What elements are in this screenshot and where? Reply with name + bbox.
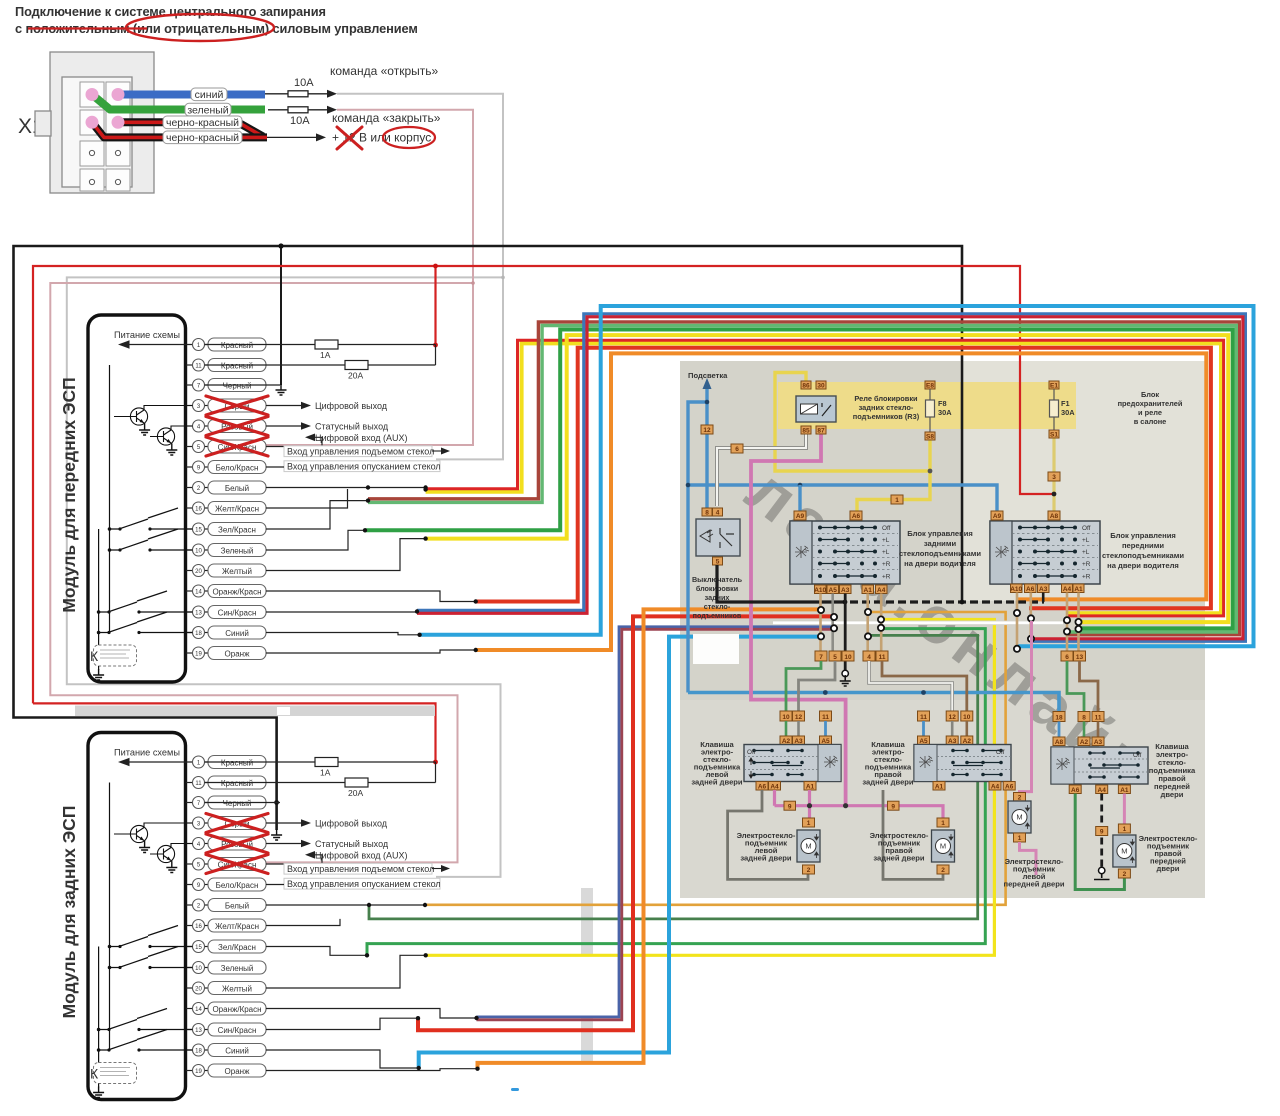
wire close-line to fuse <box>268 109 288 111</box>
wire blue lighting feed <box>705 388 708 508</box>
arrow команда открыть <box>308 93 328 95</box>
rear window lock switch box <box>696 519 740 556</box>
wire label зеленый <box>185 103 231 116</box>
svg-text:A6: A6 <box>758 784 767 791</box>
rear A3 black ground wire <box>844 594 847 671</box>
wire blue branch to lower bus <box>688 402 707 693</box>
wire orange Оранж (lower) <box>478 609 824 1068</box>
svg-text:30A: 30A <box>938 408 952 417</box>
wire зеленый <box>92 95 265 110</box>
wire label синий <box>163 88 242 144</box>
svg-text:E8: E8 <box>926 383 934 390</box>
gray artifact bar above lower module <box>75 706 435 717</box>
svg-text:предохранителей: предохранителей <box>1118 399 1183 408</box>
svg-text:Off: Off <box>996 749 1005 756</box>
pin box 11 <box>876 651 888 661</box>
front A6 stub + terminals + pink down <box>1030 593 1033 641</box>
svg-text:задней двери: задней двери <box>691 778 743 787</box>
thin black jog wires upper module <box>266 488 476 654</box>
svg-text:7: 7 <box>819 654 823 661</box>
relay pin 86 <box>801 381 811 389</box>
svg-text:F1: F1 <box>1061 399 1070 408</box>
connector empty pin holes <box>89 150 120 184</box>
svg-text:A4: A4 <box>1098 787 1107 794</box>
svg-text:задних стекло-: задних стекло- <box>859 403 914 412</box>
scanned panel background <box>680 361 1205 898</box>
svg-text:2: 2 <box>807 867 811 874</box>
red ellipse корпус <box>383 127 435 148</box>
wire gray command open: right, down, into upper module <box>337 94 503 460</box>
wire rose loop to lower module AUX <box>50 283 473 862</box>
wire gold Белый (lower) <box>425 612 1006 905</box>
pin box 3 <box>1048 472 1060 481</box>
front block pin A9 <box>991 511 1003 520</box>
wire cyan Синий (upper) <box>420 306 1254 646</box>
svg-text:A3: A3 <box>1039 586 1048 593</box>
wire blue Оранж/Красн pair (lower) <box>477 627 836 1017</box>
connector X1 body <box>35 52 154 193</box>
svg-text:13: 13 <box>1076 654 1084 661</box>
pin box 6 <box>731 444 743 453</box>
wire blue Синий (lower) <box>419 637 824 1068</box>
svg-text:команда «закрыть»: команда «закрыть» <box>332 111 441 125</box>
front driver control block <box>990 521 1100 584</box>
svg-text:30A: 30A <box>1061 408 1075 417</box>
svg-text:12: 12 <box>949 714 957 721</box>
pink bus motors row <box>775 790 944 818</box>
svg-text:и реле: и реле <box>1138 408 1162 417</box>
svg-text:Блок управления: Блок управления <box>907 529 973 538</box>
junction red/fuse lower <box>433 760 438 765</box>
relay pin 87 <box>816 426 826 434</box>
pin box 5 <box>829 651 841 661</box>
motor 3 <box>1014 793 1026 802</box>
svg-text:стеклоподъемниками: стеклоподъемниками <box>1102 551 1184 560</box>
stubs to A2 A3 A5 <box>785 721 788 736</box>
svg-text:A1: A1 <box>935 784 944 791</box>
pin box 10 blk1 <box>780 711 792 721</box>
line to +12V <box>267 136 316 138</box>
svg-text:A3: A3 <box>841 587 850 594</box>
svg-text:8: 8 <box>1082 714 1086 721</box>
relay text <box>853 394 920 421</box>
red strikethrough on "положительным" <box>28 27 147 29</box>
svg-text:85: 85 <box>802 428 810 435</box>
wire maroon Оранж/Красн pair (lower) <box>477 629 836 1020</box>
key block 3: right front door <box>1053 712 1065 722</box>
svg-text:18: 18 <box>1055 714 1063 721</box>
wire label черно-красный 1 <box>163 116 242 129</box>
front A3 stub <box>1042 593 1045 603</box>
svg-text:6: 6 <box>735 446 739 453</box>
black frame wire inside panel <box>961 361 964 602</box>
svg-text:стеклоподъемниками: стеклоподъемниками <box>899 549 981 558</box>
wire white box4 to box12 blk2 <box>869 661 952 711</box>
white artifact box <box>693 634 739 664</box>
svg-text:A3: A3 <box>1094 739 1103 746</box>
red power wire top <box>33 266 1054 703</box>
svg-text:передней двери: передней двери <box>1004 880 1065 889</box>
svg-text:5: 5 <box>716 559 720 566</box>
pin box 7 <box>815 651 827 661</box>
svg-text:3: 3 <box>1052 474 1056 481</box>
wire blue bus upper <box>688 485 997 511</box>
svg-text:10A: 10A <box>290 115 310 127</box>
wire rose command close: right, down, into upper module AUX <box>265 110 473 445</box>
svg-text:Модуль для передних ЭСП: Модуль для передних ЭСП <box>59 377 79 612</box>
svg-text:черно-красный: черно-красный <box>166 117 239 129</box>
red ellipse around "(или отрицательным)" <box>126 14 274 41</box>
svg-text:10: 10 <box>844 654 852 661</box>
svg-text:передними: передними <box>1122 541 1164 550</box>
svg-text:Off: Off <box>747 749 756 756</box>
svg-text:2: 2 <box>941 867 945 874</box>
rear driver control block <box>790 521 900 584</box>
pin box 11 blk1 <box>820 711 832 721</box>
svg-text:A8: A8 <box>1055 739 1064 746</box>
wire yellow Желт/Красн (upper) <box>426 343 1221 613</box>
yellow highlight band <box>778 382 1076 429</box>
wire red Син/Красн (lower) <box>418 616 835 1030</box>
svg-text:9: 9 <box>1100 829 1104 836</box>
svg-text:11: 11 <box>1095 714 1102 721</box>
rear block window icon <box>795 546 809 558</box>
svg-text:11: 11 <box>879 654 886 661</box>
pin box 10 <box>842 651 854 661</box>
svg-text:1: 1 <box>807 820 811 827</box>
wire pink block3 A1 to motor4 <box>1123 794 1126 825</box>
svg-text:S8: S8 <box>926 434 934 441</box>
svg-text:черно-красный: черно-красный <box>166 132 239 144</box>
wire черно-красный 2 <box>92 122 267 137</box>
svg-text:1: 1 <box>895 497 899 504</box>
svg-text:A1: A1 <box>1120 787 1129 794</box>
wire green box6 to box8 blk3 <box>1067 661 1084 712</box>
thin black jog wires lower module <box>266 905 478 1071</box>
wire label черно-красный 2 <box>163 131 242 144</box>
svg-text:4: 4 <box>716 510 720 517</box>
svg-text:A6: A6 <box>1026 586 1035 593</box>
rear block bottom pins A10 A5 A3 A1 A4 <box>815 585 827 594</box>
svg-text:на двери водителя: на двери водителя <box>904 559 976 568</box>
svg-text:задними: задними <box>924 539 957 548</box>
fusebox text <box>1118 390 1183 426</box>
front block text <box>1102 531 1184 570</box>
pin A3 blk1 <box>793 736 805 745</box>
fuse F8 30A <box>925 381 935 389</box>
switch text <box>692 575 743 620</box>
svg-text:A4: A4 <box>1063 586 1072 593</box>
wire gray motor2 loop <box>883 790 943 879</box>
wire green Зел/Красн (upper) <box>368 326 1236 633</box>
svg-text:Подсветка: Подсветка <box>688 371 728 380</box>
wire brown box11 to box10 blk2 <box>882 661 967 711</box>
svg-text:подъемников: подъемников <box>693 611 742 620</box>
svg-text:1: 1 <box>1123 826 1127 833</box>
svg-text:10: 10 <box>782 714 790 721</box>
svg-text:A10: A10 <box>814 587 826 594</box>
svg-text:A4: A4 <box>877 587 886 594</box>
black frame wire <box>14 246 963 830</box>
svg-text:1: 1 <box>1018 835 1022 842</box>
motor 4 <box>1118 824 1130 833</box>
front A1 stub + terminals <box>1077 593 1080 652</box>
red power wire inside panel <box>1020 361 1054 494</box>
svg-text:A6: A6 <box>1005 784 1014 791</box>
svg-text:S1: S1 <box>1050 432 1058 439</box>
svg-text:F8: F8 <box>938 399 947 408</box>
red X over 12 <box>337 127 362 149</box>
pin box 9 right <box>888 801 900 810</box>
key block 2: right rear door <box>918 711 930 721</box>
rear block text <box>899 529 981 568</box>
svg-text:9: 9 <box>891 803 895 810</box>
svg-text:12: 12 <box>795 714 803 721</box>
front block window icon <box>995 546 1009 558</box>
pin box 9 left <box>784 801 796 810</box>
svg-text:11: 11 <box>822 714 829 721</box>
wire gray loop to lower module <box>67 277 503 877</box>
pin box 12 <box>701 425 713 434</box>
svg-text:Блок управления: Блок управления <box>1110 531 1176 540</box>
svg-text:Реле блокировки: Реле блокировки <box>854 394 918 403</box>
ground at Черный row (lower) <box>271 829 282 840</box>
svg-text:A2: A2 <box>1080 739 1089 746</box>
fuse 10A #1 <box>288 91 308 97</box>
wire yellow Желтый (lower) <box>426 620 995 956</box>
svg-text:12: 12 <box>703 427 711 434</box>
wire white double from relay 85 <box>717 434 806 506</box>
wire green block3 to motor4 <box>1075 794 1124 890</box>
svg-text:A9: A9 <box>796 513 805 520</box>
wire синий <box>118 91 265 99</box>
svg-text:A1: A1 <box>806 784 815 791</box>
fuse F1 30A <box>1049 381 1059 389</box>
motor 1 <box>803 818 815 827</box>
svg-text:команда «открыть»: команда «открыть» <box>330 64 438 78</box>
svg-text:на двери водителя: на двери водителя <box>1107 561 1179 570</box>
junction lower black frame / Черный row <box>274 800 279 805</box>
pin box 12 blk1 <box>793 711 805 721</box>
title text <box>15 4 418 36</box>
relay pin 85 <box>801 426 811 434</box>
relay pin 30 <box>816 381 826 389</box>
rear block pin A9 <box>794 511 806 520</box>
ground at Черный row (upper) <box>276 384 287 395</box>
pin box 4 <box>863 651 875 661</box>
svg-text:задней двери: задней двери <box>873 854 925 863</box>
wire blue stub to A9 rear <box>798 485 801 511</box>
rear A1 stub + terminals <box>866 594 869 652</box>
wire gray motor1 loop <box>728 790 808 879</box>
wire green box7 to box10 blk1 <box>786 661 821 711</box>
wire red Син/Красн (upper) <box>417 317 1243 639</box>
front A10 stub + terminals <box>1016 593 1019 650</box>
pin box 6 <box>1061 651 1073 661</box>
motor 2 <box>937 818 949 827</box>
svg-text:в салоне: в салоне <box>1134 417 1167 426</box>
fuse 10A #2 <box>288 107 308 113</box>
junction red/fuse upper <box>433 343 438 348</box>
svg-text:10A: 10A <box>294 77 314 89</box>
wire gray box5 to box12 blk1 <box>799 661 836 711</box>
svg-text:30: 30 <box>817 383 825 390</box>
switch pin 8 <box>702 508 712 516</box>
wire black ground bus <box>717 565 838 602</box>
wire yellow Желтый (upper) <box>426 335 1229 622</box>
pin box 1 <box>891 495 903 504</box>
svg-text:9: 9 <box>788 803 792 810</box>
svg-text:A6: A6 <box>852 513 861 520</box>
svg-text:E1: E1 <box>1050 383 1058 390</box>
svg-text:A5: A5 <box>829 587 838 594</box>
blue dash artifact <box>511 1088 519 1091</box>
wire darkgreen Желт/Красн (lower) <box>369 635 978 919</box>
wire yellow relay loop <box>775 373 930 512</box>
wire frame drop to upper module ground <box>280 246 282 385</box>
front block pin A8 <box>1048 511 1060 520</box>
pin box 13 <box>1074 651 1086 661</box>
svg-text:синий: синий <box>195 89 224 101</box>
wire white long (rear to front block) <box>773 620 1063 625</box>
pin A2 blk1 <box>780 736 792 745</box>
svg-text:11: 11 <box>920 714 927 721</box>
red power wire lower loop <box>33 703 436 762</box>
wire red Оранж/Красн (upper) <box>476 348 1211 609</box>
wire red Желт/Красн (upper) <box>426 340 1224 616</box>
svg-text:подъемников (R3): подъемников (R3) <box>853 412 920 421</box>
front A4 stub + terminals <box>1066 593 1069 652</box>
wire green Зеленый (upper) <box>365 330 1233 629</box>
rear A4 stub + terminals <box>880 594 883 652</box>
svg-text:87: 87 <box>817 428 825 435</box>
key block 1 body <box>744 745 841 782</box>
svg-text:A4: A4 <box>770 784 779 791</box>
wire черно-красный 1 <box>118 122 263 136</box>
relay R3 <box>796 396 836 422</box>
svg-text:A8: A8 <box>1050 513 1059 520</box>
wire pale yellow F1 to A8 <box>1052 438 1055 511</box>
svg-text:A1: A1 <box>1074 586 1083 593</box>
rear A5 stub + terminals <box>831 594 834 652</box>
svg-text:8: 8 <box>705 510 709 517</box>
wire open-line to fuse <box>265 93 288 95</box>
svg-text:Модуль для задних ЭСП: Модуль для задних ЭСП <box>59 806 79 1019</box>
svg-text:5: 5 <box>833 654 837 661</box>
svg-text:A6: A6 <box>1071 787 1080 794</box>
svg-text:A4: A4 <box>991 784 1000 791</box>
svg-text:двери: двери <box>1157 864 1180 873</box>
svg-text:A10: A10 <box>1010 586 1022 593</box>
svg-text:Off: Off <box>1133 752 1142 759</box>
gray artifact strips lower center <box>581 888 593 956</box>
svg-text:10: 10 <box>963 714 971 721</box>
svg-text:86: 86 <box>802 383 810 390</box>
arrow команда закрыть <box>308 109 328 111</box>
wire orange Оранж (upper) <box>476 353 1207 650</box>
switch pin 4 <box>713 508 723 516</box>
svg-text:двери: двери <box>1161 790 1184 799</box>
pin A5 blk1 <box>820 736 832 745</box>
wire maroon Зел/Красн (upper) <box>368 322 1239 635</box>
connector pins (pink) <box>86 88 125 129</box>
svg-text:2: 2 <box>1123 871 1127 878</box>
blk1 text <box>691 740 743 787</box>
svg-text:задней двери: задней двери <box>862 778 914 787</box>
blk1 bottom pins A6 A4 A1 <box>756 782 768 791</box>
wire pink from relay 87 <box>751 434 846 806</box>
rear block pin A6 <box>850 511 862 520</box>
svg-text:4: 4 <box>867 654 871 661</box>
wire black dashed block3 A4 to ground <box>1100 794 1103 868</box>
svg-text:A9: A9 <box>993 513 1002 520</box>
svg-text:A1: A1 <box>864 587 873 594</box>
svg-text:задней двери: задней двери <box>740 854 792 863</box>
svg-text:Блок: Блок <box>1141 390 1159 399</box>
wire brown box13 to box11 blk3 <box>1080 661 1099 712</box>
front block bottom pins <box>1011 584 1023 593</box>
wire blue bus lower <box>688 693 1059 713</box>
svg-text:Подключение к системе централь: Подключение к системе центрального запир… <box>15 4 326 19</box>
wire blue Син/Красн (upper) <box>417 314 1245 642</box>
switch pin 5 <box>713 557 723 565</box>
wire green Зел/Красн (lower) <box>367 629 985 956</box>
svg-text:1: 1 <box>941 820 945 827</box>
rear A10 stub + terminals <box>819 594 822 652</box>
svg-text:зеленый: зеленый <box>187 104 228 116</box>
svg-text:6: 6 <box>1065 654 1069 661</box>
